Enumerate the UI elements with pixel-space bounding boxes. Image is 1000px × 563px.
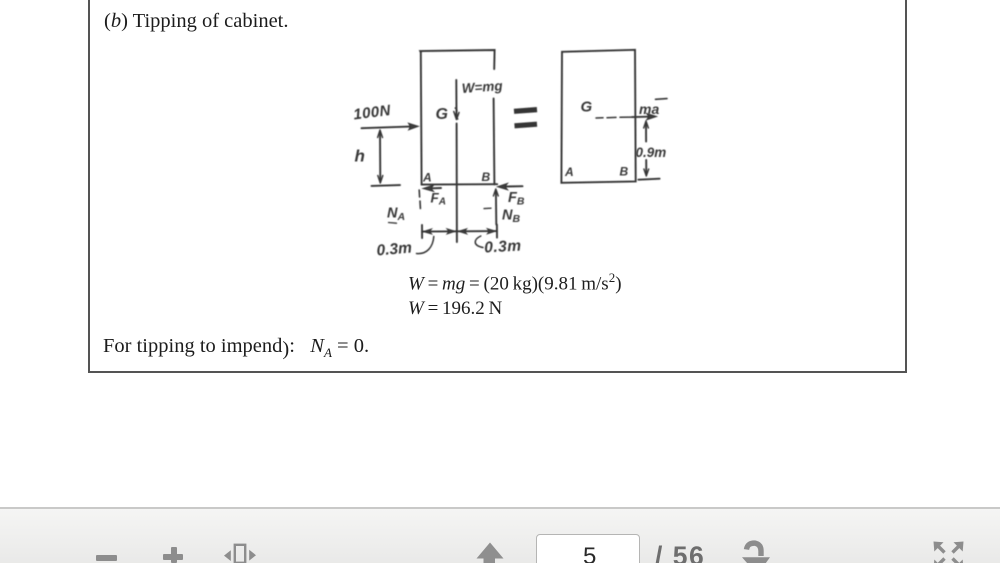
svg-text:h: h [355, 147, 365, 166]
normal force NB [495, 191, 497, 225]
toolbar [0, 507, 1000, 563]
svg-text:0.9m: 0.9m [636, 145, 667, 160]
toolbar icon: fullscreen expand [928, 538, 973, 563]
friction arrow FA [428, 187, 441, 189]
svg-text:B: B [620, 165, 629, 179]
bottom caption [103, 335, 369, 361]
equation line 1 [408, 270, 622, 295]
equation line 2 [408, 298, 502, 320]
ma overbar [656, 98, 668, 101]
cabinet outline left [420, 50, 494, 69]
equals sign [514, 110, 537, 126]
toolbar icon: down-curve arrow [735, 538, 780, 563]
force arrow 100N [362, 126, 414, 128]
h dimension line [379, 132, 381, 182]
svg-text:A: A [564, 165, 574, 179]
svg-text:B: B [482, 170, 491, 184]
svg-text:A: A [422, 171, 432, 185]
page count text [655, 543, 705, 563]
ma arrow [632, 116, 652, 119]
svg-text:NB: NB [502, 208, 520, 226]
toolbar icon: fit width [220, 540, 260, 563]
cabinet outline right [561, 50, 635, 183]
heading text [104, 10, 289, 33]
toolbar icon: zoom in (plus) [163, 554, 183, 560]
toolbar icon: zoom out (minus) [96, 555, 117, 561]
bottom dimension line [422, 230, 497, 233]
svg-text:0.3m: 0.3m [376, 239, 413, 259]
0.9m dimension [645, 123, 647, 142]
page number input box [536, 534, 640, 563]
svg-text:ma: ma [639, 101, 659, 117]
svg-text:0.3m: 0.3m [484, 238, 522, 257]
svg-text:NA: NA [387, 206, 405, 224]
svg-text:G: G [436, 106, 448, 123]
diagram SVG [330, 35, 700, 265]
leader curve left 0.3m [417, 237, 434, 254]
svg-text:100N: 100N [352, 102, 392, 124]
dashed line from G [596, 116, 632, 119]
svg-text:W=mg: W=mg [461, 78, 504, 96]
svg-text:G: G [581, 99, 593, 116]
normal force NA dashed [419, 190, 420, 209]
friction arrow FB [502, 185, 523, 187]
toolbar icon: up arrow [470, 540, 510, 563]
solution box border [88, 0, 907, 373]
weight arrow W=mg [455, 80, 457, 117]
svg-text:FA: FA [431, 191, 446, 208]
svg-text:FB: FB [508, 190, 525, 208]
leader curve right 0.3m [475, 236, 483, 248]
